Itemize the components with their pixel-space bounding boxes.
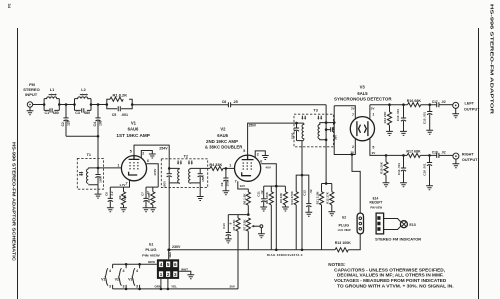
svg-text:40V: 40V <box>266 166 271 170</box>
svg-text:PLUG: PLUG <box>339 224 350 228</box>
svg-text:.02: .02 <box>260 190 264 195</box>
svg-text:R5 1.5K: R5 1.5K <box>232 219 236 231</box>
svg-text:12V: 12V <box>240 184 245 188</box>
svg-text:4: 4 <box>123 269 125 273</box>
svg-text:1: 1 <box>160 272 163 277</box>
node at L1 out / wire to L2 <box>43 103 46 106</box>
svg-text:R16 68K: R16 68K <box>407 99 422 103</box>
ground (V1 pin2) <box>149 154 156 158</box>
resistor R4 33K <box>200 163 234 171</box>
heater top bus BRN <box>113 263 157 265</box>
svg-text:INPUT: INPUT <box>25 92 38 97</box>
resistor R3 47K <box>147 187 155 208</box>
svg-text:ORN: ORN <box>154 285 161 289</box>
tube V1 <box>121 156 146 181</box>
E1 PLUG labels <box>142 242 160 257</box>
svg-text:E13: E13 <box>409 223 415 227</box>
left output jack <box>453 102 459 113</box>
svg-text:HS-996 STEREO-FM ADAPTOR SCHEM: HS-996 STEREO-FM ADAPTOR SCHEMATIC <box>12 142 17 262</box>
svg-text:V3: V3 <box>360 84 366 89</box>
svg-text:1500: 1500 <box>98 176 102 183</box>
ground <box>400 131 407 135</box>
svg-text:1: 1 <box>229 164 231 168</box>
svg-text:L1: L1 <box>50 88 54 92</box>
NOTES block <box>328 262 453 288</box>
svg-text:NOTES:: NOTES: <box>328 262 346 267</box>
FM STEREO INPUT label <box>23 82 39 97</box>
svg-text:R17 68K: R17 68K <box>406 150 421 154</box>
svg-text:4: 4 <box>109 269 111 273</box>
capacitor C14 .001 <box>397 155 406 182</box>
svg-text:PIN VIEW: PIN VIEW <box>142 253 160 257</box>
svg-text:4: 4 <box>136 269 138 273</box>
svg-text:LEFT: LEFT <box>465 102 475 106</box>
svg-text:R13 100K: R13 100K <box>335 241 352 245</box>
svg-text:BRN: BRN <box>148 260 155 264</box>
svg-text:1500: 1500 <box>163 181 167 188</box>
capacitor C15 .001 <box>423 105 433 131</box>
svg-text:YEL: YEL <box>171 285 177 289</box>
coil L2 with C3 680 tank <box>75 88 92 115</box>
V1 6AU6 1ST 19KC AMP labels <box>116 120 150 137</box>
wire C8 to T3 corner <box>231 104 327 106</box>
svg-text:T2: T2 <box>184 154 188 158</box>
resistor R14 20K <box>383 105 392 132</box>
svg-text:WHT: WHT <box>181 267 188 271</box>
svg-text:STEREO FM INDICATOR: STEREO FM INDICATOR <box>375 238 421 242</box>
svg-text:3: 3 <box>123 284 125 288</box>
wire <box>91 104 107 106</box>
resistor R16 68K <box>407 99 422 107</box>
svg-text:C15 .001: C15 .001 <box>423 112 427 125</box>
svg-text:120: 120 <box>123 195 127 200</box>
svg-text:RIGHT: RIGHT <box>462 152 474 156</box>
coil L1 with C1 680 tank <box>44 88 59 115</box>
ground <box>225 239 232 243</box>
resistor R12 27K <box>326 184 334 212</box>
svg-text:1500: 1500 <box>201 175 205 182</box>
svg-text:6: 6 <box>260 160 262 164</box>
svg-text:7: 7 <box>126 182 128 186</box>
svg-text:R2: R2 <box>118 195 122 199</box>
svg-text:254V: 254V <box>159 146 168 150</box>
svg-text:172V: 172V <box>153 169 157 176</box>
svg-text:TO GROUND WITH A VTVM. + 30%.: TO GROUND WITH A VTVM. + 30%. NO SIGNAL … <box>337 283 454 288</box>
svg-text:2: 2 <box>257 152 259 156</box>
capacitor C4 100 <box>93 105 103 168</box>
ground <box>453 164 460 168</box>
V3 pin leads <box>334 106 355 155</box>
svg-text:E2: E2 <box>342 216 346 220</box>
svg-text:C9: C9 <box>220 182 224 186</box>
svg-text:R15 20K: R15 20K <box>380 161 384 174</box>
svg-text:V1: V1 <box>101 277 105 281</box>
svg-text:7: 7 <box>352 113 354 117</box>
plug E2 <box>338 213 364 234</box>
capacitor C17 .02 <box>432 100 446 107</box>
svg-text:7: 7 <box>235 180 237 184</box>
screen node line <box>264 185 286 187</box>
svg-text:C1: C1 <box>44 111 49 115</box>
resistor R1 8.2K with C5 .001 <box>107 92 132 117</box>
svg-text:V3: V3 <box>128 277 132 281</box>
B+ feed line from T3 primary <box>301 141 303 250</box>
svg-text:2: 2 <box>142 152 144 156</box>
svg-text:SYNCRONOUS DETECTOR: SYNCRONOUS DETECTOR <box>334 97 392 102</box>
ground <box>452 114 459 118</box>
ground <box>143 208 150 212</box>
resistor R17 68K <box>406 150 421 158</box>
E2 plug line <box>352 155 360 214</box>
svg-text:OUTPUT: OUTPUT <box>462 158 478 162</box>
ground (T1) <box>95 194 102 198</box>
resistor R2 120 <box>118 187 127 208</box>
svg-text:C5: C5 <box>112 113 117 117</box>
capacitor C13 .001 <box>396 105 406 132</box>
svg-text:R1 8.2K: R1 8.2K <box>112 92 127 97</box>
svg-text:1: 1 <box>117 163 119 167</box>
svg-text:PIN VIEW: PIN VIEW <box>370 206 382 210</box>
ground <box>400 183 407 187</box>
ground <box>223 191 230 195</box>
svg-text:2: 2 <box>167 272 170 277</box>
heater V1 <box>101 264 113 289</box>
svg-text:C17: C17 <box>432 100 438 104</box>
svg-text:.25: .25 <box>233 100 238 104</box>
svg-text:C8: C8 <box>222 100 227 104</box>
svg-text:C3: C3 <box>75 111 80 115</box>
svg-text:& 38KC DOUBLER: & 38KC DOUBLER <box>205 145 243 150</box>
svg-text:2.2: 2.2 <box>110 191 114 196</box>
wire C2 to C4 bottom bus <box>66 135 98 137</box>
svg-text:.02: .02 <box>441 100 446 104</box>
capacitor (390) T3 secondary <box>326 127 337 140</box>
svg-text:R3 47K: R3 47K <box>147 192 151 203</box>
svg-text:V2: V2 <box>115 277 119 281</box>
svg-text:3: 3 <box>174 272 177 277</box>
svg-text:T3: T3 <box>313 109 317 113</box>
composite line down through T3 <box>325 105 327 184</box>
svg-text:C13 .001: C13 .001 <box>396 109 400 122</box>
RED lead into E1 pin5 <box>167 249 170 252</box>
svg-text:V1: V1 <box>131 120 137 125</box>
resistor R15 20K <box>380 155 389 182</box>
capacitor C7 .07 <box>140 187 150 208</box>
ground (input jack) <box>27 111 34 115</box>
svg-text:T1: T1 <box>87 153 91 157</box>
tube V3 <box>350 117 374 141</box>
svg-text:1.7V: 1.7V <box>119 183 125 187</box>
ground (T2 secondary) <box>197 197 204 201</box>
svg-text:6AL5: 6AL5 <box>357 91 368 96</box>
svg-text:5: 5 <box>167 262 170 267</box>
svg-text:1: 1 <box>372 113 374 117</box>
heater V2 <box>115 264 127 289</box>
svg-text:V2: V2 <box>220 126 226 131</box>
svg-text:20V: 20V <box>230 284 235 288</box>
svg-text:C6: C6 <box>105 192 109 196</box>
svg-text:34: 34 <box>7 4 12 9</box>
plug E1 <box>157 259 179 279</box>
ground <box>386 131 393 135</box>
svg-text:250V: 250V <box>249 124 257 128</box>
resistor R10 470K <box>290 175 302 250</box>
svg-text:6: 6 <box>174 262 177 267</box>
svg-text:HS-996 STEREO-FM ADAPTOR: HS-996 STEREO-FM ADAPTOR <box>489 4 495 115</box>
svg-text:.02: .02 <box>309 189 313 194</box>
resistor R13 100K <box>335 241 352 252</box>
svg-text:R4 33K: R4 33K <box>209 163 222 167</box>
svg-text:1500: 1500 <box>290 132 294 139</box>
lamp E13 <box>384 219 416 230</box>
svg-text:.001: .001 <box>121 113 128 117</box>
resistor R6 1.5K <box>242 189 250 215</box>
svg-text:6: 6 <box>147 159 149 163</box>
svg-text:C14 .001: C14 .001 <box>397 163 401 176</box>
capacitor C6 2.2 <box>105 187 115 208</box>
svg-text:100: 100 <box>226 181 230 186</box>
wire T3 to V3 loop <box>326 122 334 124</box>
capacitor C11 .02 <box>256 186 266 207</box>
heater V3 <box>128 264 140 289</box>
capacitor C8 .25 <box>222 100 238 107</box>
ground <box>383 183 390 187</box>
ground <box>149 208 156 212</box>
capacitor C10 8 <box>222 215 232 239</box>
svg-text:5: 5 <box>372 146 374 150</box>
svg-text:120: 120 <box>67 120 71 126</box>
ground <box>120 208 127 212</box>
capacitor C18 .02 <box>432 151 446 158</box>
ground <box>262 156 269 160</box>
svg-text:R9 33K: R9 33K <box>279 192 283 203</box>
svg-text:C16 .001: C16 .001 <box>422 163 426 176</box>
ground <box>187 275 194 279</box>
left output chain <box>370 104 408 106</box>
svg-text:100: 100 <box>99 120 103 126</box>
svg-text:R12 27K: R12 27K <box>326 191 330 204</box>
svg-text:C10: C10 <box>222 223 226 229</box>
svg-text:2V: 2V <box>372 151 376 155</box>
svg-text:R6 1.5K: R6 1.5K <box>242 193 246 205</box>
ground <box>107 208 114 212</box>
svg-text:3: 3 <box>136 284 138 288</box>
svg-text:3V: 3V <box>351 106 355 110</box>
svg-text:2ND 19KC AMP: 2ND 19KC AMP <box>206 139 238 144</box>
capacitor C12 .02 <box>302 175 313 212</box>
ground <box>258 234 265 238</box>
right output chain <box>385 154 388 157</box>
capacitor C16 .001 <box>422 155 432 185</box>
capacitor C9 100 <box>220 168 230 190</box>
svg-text:R14 20K: R14 20K <box>383 111 387 124</box>
svg-text:C18: C18 <box>432 151 438 155</box>
svg-text:R8 330K: R8 330K <box>265 191 269 204</box>
B+ bus 230V <box>169 234 360 250</box>
svg-text:2: 2 <box>352 145 354 149</box>
svg-text:4: 4 <box>160 262 163 267</box>
svg-text:OUTPUT: OUTPUT <box>464 108 480 112</box>
heater bottom bus <box>113 231 238 289</box>
receptacle E14 <box>370 196 384 234</box>
svg-text:6AU6: 6AU6 <box>128 127 139 132</box>
svg-text:C2: C2 <box>61 122 65 126</box>
wire jack to L1 <box>33 104 44 106</box>
svg-text:6AU6: 6AU6 <box>217 133 228 138</box>
svg-text:R7 3.5K: R7 3.5K <box>242 219 246 231</box>
svg-text:680: 680 <box>84 111 90 115</box>
svg-text:C4: C4 <box>93 122 97 126</box>
svg-text:680: 680 <box>53 111 59 115</box>
resistor R7 3.5K (variable) <box>242 218 262 250</box>
capacitor C2 120 <box>61 105 71 137</box>
input jack J1 <box>27 102 32 111</box>
svg-text:L2: L2 <box>81 88 85 92</box>
tube V2 <box>235 155 261 181</box>
ground <box>260 207 267 211</box>
resistor R5 1.5K <box>232 215 240 289</box>
transformer T3 <box>290 109 333 147</box>
transformer T1 <box>77 153 103 194</box>
ground <box>328 212 335 216</box>
svg-text:R10 470K: R10 470K <box>290 190 294 204</box>
ground <box>305 212 312 216</box>
svg-text:RED: RED <box>168 252 172 258</box>
svg-text:C7: C7 <box>140 192 144 196</box>
svg-text:230V: 230V <box>172 245 181 249</box>
ground <box>426 130 433 134</box>
svg-text:1ST 19KC AMP: 1ST 19KC AMP <box>116 133 150 138</box>
ground <box>426 186 433 190</box>
svg-text:LUG VIEW: LUG VIEW <box>338 228 351 232</box>
svg-text:5: 5 <box>243 149 245 153</box>
transformer T2 <box>161 154 207 250</box>
WHT lead to ground <box>179 271 191 274</box>
svg-text:C12: C12 <box>303 190 307 196</box>
V3 6AL5 SYNCRONOUS DETECTOR labels <box>334 84 392 101</box>
svg-text:RECEPT: RECEPT <box>370 201 383 205</box>
svg-text:3: 3 <box>109 284 111 288</box>
ground <box>282 207 289 211</box>
svg-text:R11 2.2M: R11 2.2M <box>315 191 319 204</box>
svg-text:PLUG: PLUG <box>145 247 156 252</box>
resistor R9 33K <box>279 186 288 207</box>
resistor R11 2.2M <box>315 184 323 250</box>
svg-text:VOLTAGES - MEASURED FROM POINT: VOLTAGES - MEASURED FROM POINT INDICATED <box>334 278 447 283</box>
svg-text:.02: .02 <box>441 151 446 155</box>
svg-text:DIAG 63D6C0v6673-0: DIAG 63D6C0v6673-0 <box>267 253 303 257</box>
right output jack <box>453 153 459 164</box>
resistor R8 330K <box>265 186 273 250</box>
svg-text:E1: E1 <box>149 242 153 246</box>
V2 6AU6 2ND 19KC AMP & 38KC DOUBLER labels <box>205 126 243 149</box>
wire to C8 <box>132 104 228 106</box>
svg-text:3V: 3V <box>371 106 375 110</box>
svg-text:5: 5 <box>130 150 132 154</box>
